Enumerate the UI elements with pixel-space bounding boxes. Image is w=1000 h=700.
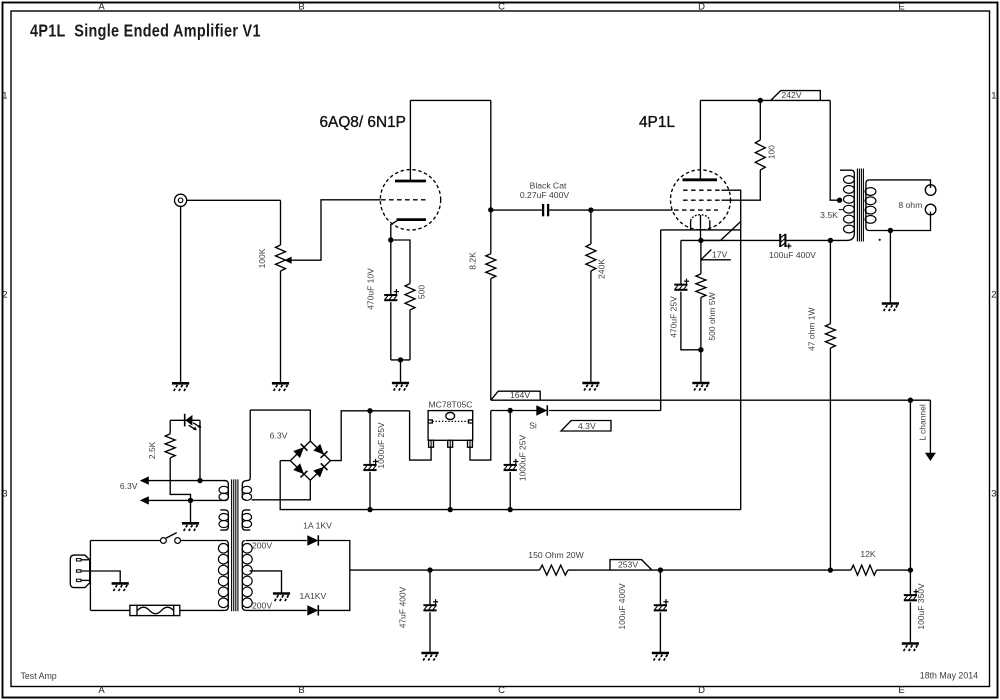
- resistor 240K: [586, 244, 596, 271]
- wire 2.5K bottom jog: [170, 458, 190, 501]
- LED indicator: [185, 415, 192, 426]
- V2 grid g2: [683, 199, 722, 201]
- wire 150 ohm to 253V node: [568, 569, 660, 571]
- svg-text:1000uF 25V: 1000uF 25V: [376, 422, 386, 469]
- T1 winding unused right: [242, 510, 250, 530]
- wire 12K to 100uF 350V: [877, 569, 911, 571]
- svg-text:B: B: [298, 685, 304, 696]
- svg-text:100uF 350V: 100uF 350V: [916, 583, 926, 630]
- svg-text:4P1L Single Ended Amplifier V: 4P1L Single Ended Amplifier V1: [30, 21, 261, 41]
- svg-text:Black Cat: Black Cat: [530, 180, 567, 190]
- wire rail down to plate node: [490, 100, 492, 209]
- capacitor 100uF 400V ultrapath: [779, 234, 781, 247]
- wire OPT bottom lead: [830, 233, 854, 240]
- diode 1A 1KV upper: [307, 535, 318, 545]
- svg-text:E: E: [898, 685, 904, 696]
- wire plate node to 8.2K: [490, 210, 492, 254]
- wire 253V rail left: [350, 569, 540, 571]
- svg-text:L channel: L channel: [917, 404, 927, 441]
- wire HV top to diode: [246, 540, 307, 542]
- svg-text:2.5K: 2.5K: [147, 441, 157, 459]
- wire mains live to switch: [90, 540, 160, 542]
- wire secondary bottom lead: [869, 212, 930, 231]
- wire to ground: [400, 360, 402, 383]
- ground mains earth: [112, 583, 129, 591]
- ground HV center tap: [273, 594, 290, 602]
- svg-text:1A 1KV: 1A 1KV: [303, 520, 332, 530]
- svg-text:MC78T05C: MC78T05C: [429, 399, 473, 409]
- T1 HV secondary winding: [242, 541, 246, 611]
- net flag 17V: [701, 250, 731, 260]
- svg-text:500 ohm 5W: 500 ohm 5W: [707, 292, 717, 340]
- node 47uF: [427, 567, 432, 572]
- wire plug pin2 to ground: [81, 571, 120, 583]
- svg-text:1: 1: [2, 91, 7, 102]
- wire 100 ohm top: [759, 100, 761, 140]
- potentiometer 100K: [276, 245, 286, 271]
- svg-text:240K: 240K: [597, 259, 607, 279]
- capacitor Black Cat 0.27uF 400V: [542, 204, 544, 216]
- net flag 242V: [771, 91, 821, 101]
- triode V1 envelope: [380, 170, 440, 230]
- wire 242V rail down to OPT primary: [830, 100, 839, 200]
- OPT secondary winding: [866, 180, 870, 231]
- wire ultrapath cap to OPT: [786, 239, 830, 241]
- capacitor 470uF 25V: [674, 284, 687, 286]
- wire switch to T1 primary: [181, 540, 226, 542]
- wire 100uF 350V to ground: [909, 602, 911, 643]
- wire 6.3V line A: [145, 480, 226, 482]
- node OPT primary tap: [837, 198, 842, 203]
- wire 100 ohm to g2: [722, 170, 761, 200]
- ground pot: [272, 383, 289, 391]
- svg-text:47 ohm 1W: 47 ohm 1W: [807, 307, 817, 350]
- svg-text:C: C: [498, 1, 505, 12]
- ground heater winding: [182, 523, 199, 531]
- net flag 164V: [491, 391, 540, 400]
- ground V1 cathode: [392, 383, 409, 391]
- svg-text:164V: 164V: [510, 390, 530, 400]
- bridge diode upper-right: [313, 444, 327, 458]
- OPT 3.5K tick: [839, 209, 844, 211]
- wire jack to pot top: [187, 199, 281, 201]
- regulator pin 3: [468, 440, 473, 447]
- node OPT primary bottom: [828, 238, 833, 243]
- node 47 ohm branch: [828, 567, 833, 572]
- LED arrow 2: [193, 423, 199, 427]
- wire diode2 to rail: [319, 570, 350, 610]
- V2 grid g3: [683, 189, 722, 191]
- node V2 grid junction: [588, 207, 593, 212]
- wire plug pin1: [81, 559, 90, 561]
- svg-text:D: D: [698, 1, 705, 12]
- resistor 500: [405, 284, 415, 311]
- net flag 253V: [610, 560, 652, 571]
- svg-text:A: A: [98, 685, 105, 696]
- svg-text:2: 2: [991, 290, 996, 301]
- wire Si diode to filament: [549, 410, 661, 412]
- resistor 2.5K: [169, 420, 171, 434]
- wire 47uF to ground: [429, 612, 431, 653]
- node 1000uF cap1: [367, 408, 372, 413]
- svg-text:1A1KV: 1A1KV: [300, 591, 327, 601]
- V1 cathode: [397, 218, 427, 221]
- wire 47 ohm to 253V rail: [829, 348, 831, 570]
- wire cap bottom: [390, 302, 392, 360]
- wire 47uF top: [429, 570, 431, 604]
- wire bridge DC- to left corner: [280, 460, 290, 462]
- output jack minus: [925, 204, 936, 215]
- svg-text:100K: 100K: [257, 248, 267, 268]
- bridge diode lower-left: [293, 463, 307, 477]
- wire Si line left: [491, 410, 537, 412]
- capacitor 1000uF 25V right: [504, 464, 517, 466]
- node V2 cathode: [698, 238, 703, 243]
- svg-text:242V: 242V: [782, 90, 802, 100]
- svg-text:18th May 2014: 18th May 2014: [920, 671, 978, 681]
- svg-text:C: C: [498, 685, 505, 696]
- diode 1A1KV lower: [307, 605, 318, 615]
- svg-text:1000uF 25V: 1000uF 25V: [518, 435, 528, 482]
- node LED branch: [197, 478, 202, 483]
- svg-text:47uF 400V: 47uF 400V: [398, 586, 408, 628]
- node 164V rail to B+ branch: [908, 398, 913, 403]
- V1 grid: [381, 199, 426, 201]
- node cap2 to rail: [508, 507, 513, 512]
- mains plug: [70, 555, 89, 588]
- input jack J1: [175, 194, 187, 206]
- wire grid node to V2 g1: [591, 209, 673, 211]
- svg-text:8 ohm: 8 ohm: [898, 200, 922, 210]
- wire HV center tap: [250, 571, 282, 594]
- svg-text:200V: 200V: [252, 600, 272, 610]
- svg-text:4.3V: 4.3V: [578, 421, 596, 431]
- wire regulator input: [410, 411, 432, 460]
- svg-text:100uF 400V: 100uF 400V: [617, 583, 627, 630]
- node 12K output: [908, 567, 913, 572]
- wire LED right side: [199, 420, 201, 480]
- arrow 6.3V line A: [140, 476, 149, 484]
- net flag 4.3V: [561, 421, 611, 432]
- wire cathode node to cap: [390, 240, 392, 294]
- wire filament-g3 line down to PSU rail: [740, 230, 742, 510]
- svg-text:17V: 17V: [712, 250, 728, 260]
- bridge rectifier diamond: [290, 441, 330, 480]
- svg-text:A: A: [98, 1, 105, 12]
- svg-text:3: 3: [2, 489, 7, 500]
- svg-text:500: 500: [416, 285, 426, 299]
- node secondary ground junction: [888, 228, 893, 233]
- capacitor 100uF 350V: [904, 594, 917, 596]
- wire 500 bottom: [409, 310, 411, 360]
- wire V1 anode top rail: [410, 99, 490, 101]
- resistor 500 ohm 5W: [696, 274, 706, 298]
- T1 winding 6.3V bridge: [242, 478, 250, 500]
- resistor 12K: [851, 565, 877, 575]
- wire line B to ground: [190, 500, 192, 523]
- wire fuse to T1 primary: [180, 609, 225, 611]
- capacitor 1000uF 25V left: [363, 464, 376, 466]
- svg-text:6.3V: 6.3V: [120, 481, 138, 491]
- svg-text:3: 3: [991, 489, 996, 500]
- svg-text:6AQ8/ 6N1P: 6AQ8/ 6N1P: [320, 114, 406, 131]
- wire 470uF bottom: [681, 292, 701, 350]
- svg-text:100uF 400V: 100uF 400V: [769, 250, 816, 260]
- wire secondary to ground: [889, 231, 891, 304]
- transformer T1 core: [231, 479, 233, 611]
- wire L channel drop: [929, 400, 931, 453]
- wire coupling cap to grid node: [549, 209, 591, 211]
- wire cap1 top: [369, 411, 371, 464]
- svg-text:8.2K: 8.2K: [468, 252, 478, 270]
- wire V2 anode up: [699, 100, 701, 179]
- wire wiper to V1 grid: [291, 200, 380, 260]
- ground V2 cathode: [692, 383, 709, 391]
- node V1 cathode junction: [388, 237, 393, 242]
- V2 filament legs: [690, 221, 692, 230]
- regulator pin 2: [448, 440, 453, 447]
- wire 8.2K to 164V rail: [490, 279, 492, 401]
- wire cap2 top: [509, 411, 511, 465]
- resistor 100: [755, 140, 765, 170]
- wire cathode network bottom: [391, 359, 410, 361]
- wire 100uF to ground: [659, 612, 661, 653]
- wire bridge AC top: [250, 410, 310, 441]
- transformer OPT primary top lead: [840, 170, 854, 173]
- wire filament left feed down to 5V line: [660, 230, 662, 411]
- node cap1 to rail: [367, 507, 372, 512]
- ground input jack: [172, 383, 189, 391]
- wire rail branch down: [909, 400, 911, 570]
- ground 100uF 400V: [652, 653, 669, 661]
- svg-text:0.27uF 400V: 0.27uF 400V: [520, 190, 569, 200]
- svg-text:150 Ohm 20W: 150 Ohm 20W: [528, 550, 584, 560]
- ground 47uF: [421, 653, 438, 661]
- stray dot: [879, 239, 881, 241]
- wire diode1 to rail: [319, 541, 350, 571]
- T1 mains primary winding: [225, 541, 229, 611]
- node 253V junction: [658, 567, 663, 572]
- arrow L channel: [925, 453, 936, 461]
- output jack plus: [925, 185, 936, 196]
- wire secondary top to jack: [869, 180, 930, 188]
- wire regulator ground pin: [449, 447, 451, 509]
- V1 anode plate: [395, 180, 426, 183]
- svg-text:253V: 253V: [618, 560, 638, 570]
- svg-text:1: 1: [991, 91, 996, 102]
- wire filament bar: [661, 229, 741, 231]
- node cathode network ground: [398, 357, 403, 362]
- capacitor 100uF 400V psu: [654, 604, 667, 606]
- ground 100uF 350V: [902, 644, 919, 652]
- OPT core: [856, 169, 858, 242]
- V2 filament dome: [691, 215, 710, 221]
- wire to ground: [700, 350, 702, 383]
- wire mains loop: [89, 541, 91, 611]
- svg-text:12K: 12K: [860, 549, 876, 559]
- LED arrow 1: [189, 425, 195, 429]
- wire 100uF 350V top: [909, 570, 911, 594]
- wire cathode node to 500: [391, 240, 410, 284]
- svg-text:100: 100: [767, 145, 777, 159]
- wire 164V rail: [491, 399, 931, 401]
- wire cathode line right to ultrapath cap: [701, 239, 780, 241]
- capacitor 470uF 10V: [384, 294, 397, 296]
- voltage regulator MC78T05C: [428, 411, 473, 441]
- wire bridge AC top to winding: [249, 410, 251, 478]
- wire g3 to filament bar: [722, 190, 741, 230]
- wire bridge DC+ rail: [330, 411, 409, 461]
- svg-text:200V: 200V: [252, 540, 272, 550]
- arrow 6.3V line B: [140, 496, 149, 504]
- wire cathode to 500 ohm 5W: [700, 240, 702, 274]
- wire diagonal cathode strap: [721, 222, 741, 241]
- wire 242V top rail: [700, 99, 830, 101]
- wire cathode cap branch down: [680, 240, 682, 284]
- OPT primary winding 3.5K: [853, 174, 855, 234]
- svg-text:6.3V: 6.3V: [270, 430, 288, 440]
- wire mains neutral to fuse: [90, 609, 129, 611]
- svg-text:4P1L: 4P1L: [639, 114, 675, 131]
- wire pot bottom to ground: [280, 271, 282, 383]
- wire PSU common rail: [280, 461, 741, 510]
- node line B junction: [188, 498, 193, 503]
- diode Si: [536, 405, 547, 415]
- wire 47 ohm top: [829, 240, 831, 323]
- svg-text:B: B: [298, 1, 304, 12]
- V2 grid g1: [674, 209, 718, 211]
- wire cathode line left: [681, 239, 721, 241]
- wire 500 ohm 5W bottom: [700, 298, 702, 350]
- svg-text:D: D: [698, 685, 705, 696]
- pot wiper arrow: [284, 257, 291, 264]
- node V1 plate junction: [488, 207, 493, 212]
- bridge diode lower-right: [313, 463, 327, 477]
- capacitor 47uF 400V: [423, 604, 436, 606]
- wire 240K to ground: [590, 271, 592, 383]
- wire LED top: [170, 419, 200, 421]
- svg-text:470uF 10V: 470uF 10V: [366, 268, 376, 310]
- ground 240K: [582, 383, 599, 391]
- svg-text:E: E: [898, 1, 904, 12]
- svg-text:3.5K: 3.5K: [820, 210, 838, 220]
- wire 253V rail right: [660, 569, 851, 571]
- wire jack to ground: [180, 206, 182, 383]
- resistor 8.2K: [486, 254, 496, 279]
- wire pot top lead: [280, 200, 282, 245]
- wire plug pin3: [81, 579, 90, 581]
- wire bridge AC bottom: [252, 480, 311, 500]
- wire 6.3V line B: [145, 499, 226, 501]
- svg-text:2: 2: [2, 290, 7, 301]
- wire plate node to coupling cap: [491, 209, 542, 211]
- resistor 47 ohm 1W: [825, 324, 835, 348]
- V2 anode plate: [683, 178, 718, 181]
- regulator pin 1: [429, 440, 434, 447]
- node regulator ground: [448, 507, 453, 512]
- switch SW1: [161, 538, 167, 544]
- pentode V2 envelope: [671, 170, 731, 230]
- ground OPT secondary: [882, 304, 899, 312]
- wire cap2 bottom: [509, 472, 511, 510]
- T1 winding unused left: [220, 510, 228, 530]
- node cathode network bottom: [698, 347, 703, 352]
- wire cap1 bottom: [369, 472, 371, 510]
- resistor 150 Ohm 20W: [540, 565, 569, 575]
- wire 100uF cap top: [659, 570, 661, 604]
- svg-text:Si: Si: [529, 420, 537, 430]
- wire HV bottom to diode: [246, 609, 307, 611]
- wire V2 filament center to cathode node: [700, 215, 702, 240]
- wire V1 anode up: [409, 100, 411, 181]
- svg-text:470uF 25V: 470uF 25V: [668, 296, 678, 338]
- svg-text:Test Amp: Test Amp: [21, 671, 57, 681]
- wire regulator output riser: [470, 411, 491, 461]
- fuse F1: [130, 605, 180, 615]
- node 1000uF cap2: [508, 408, 513, 413]
- bridge diode upper-left: [293, 444, 307, 458]
- T1 winding 6.3V indicator: [225, 481, 229, 501]
- wire grid node down to 240K: [590, 210, 592, 244]
- node 242V rail to 100 ohm: [758, 98, 763, 103]
